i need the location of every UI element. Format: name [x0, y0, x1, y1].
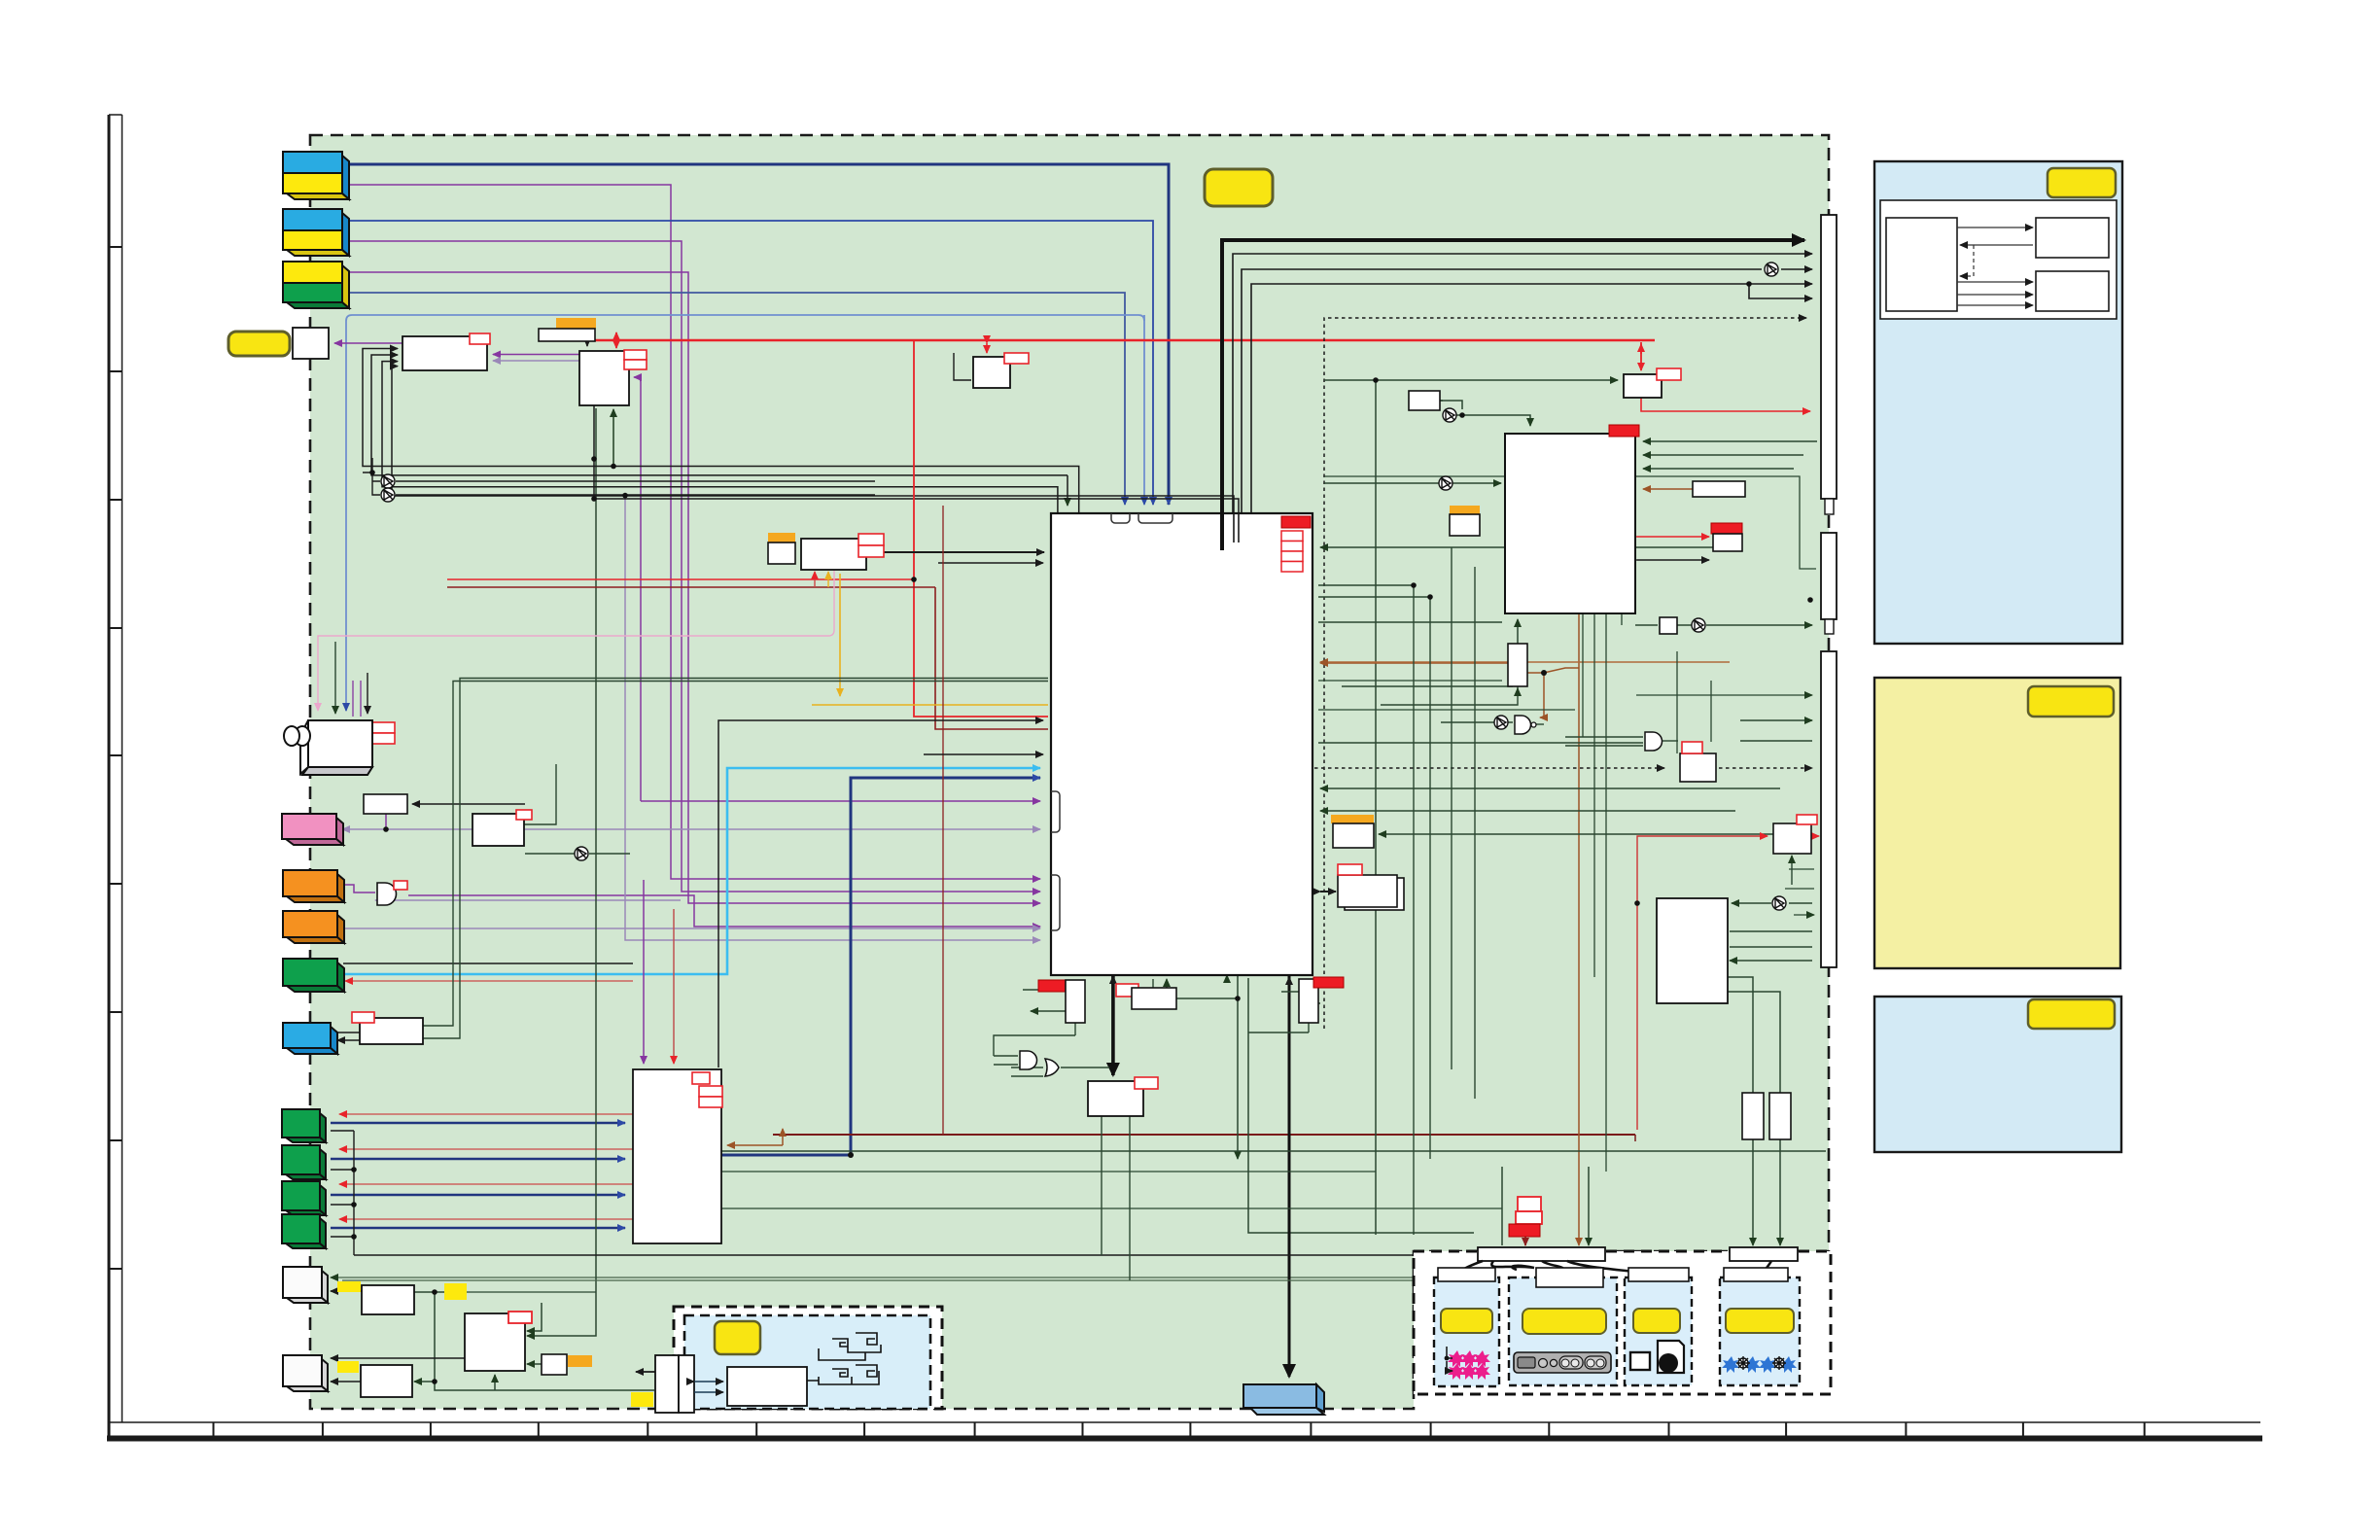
wire brown junction net: [1527, 668, 1579, 673]
connector CN6 (orange 3D plug): [283, 911, 344, 943]
tuner label (yellow rounded): [228, 332, 290, 356]
wire bus line2: [1233, 254, 1812, 513]
sound IF ref table: [858, 534, 884, 557]
memory pair at MAIN right: [1345, 878, 1404, 910]
wire into cam aux box: [412, 803, 525, 805]
right edge connector bar B: [1821, 533, 1837, 619]
mode box with ref (mid right): [1680, 753, 1716, 782]
cable curves: [1458, 1261, 1771, 1279]
wire brown into MAIN 681: [1320, 661, 1730, 663]
wire up into U2 bottom: [612, 409, 614, 467]
sync box (top right): [1624, 374, 1662, 398]
wire bus line4: [1251, 284, 1812, 513]
OR gate G5: [1045, 1059, 1059, 1076]
regulator B1: [362, 1285, 414, 1314]
wire box3 bottom drops: [1102, 1116, 1130, 1280]
red tag stack above cluster: [1518, 1197, 1541, 1211]
regulator B1 yellow tag: [337, 1281, 361, 1292]
sub box + orange tag: [542, 1354, 567, 1375]
wires speaker jacks (red return): [339, 1113, 633, 1115]
long rails bottom: [354, 1254, 1826, 1256]
wire B1 right net: [414, 1292, 654, 1390]
wire sync box feed (green): [1324, 379, 1618, 381]
AND gate G4: [1020, 1051, 1037, 1069]
wires bar C misc2: [1785, 869, 1814, 915]
wire sound IF bottom stubs: [814, 572, 816, 587]
wire reset box left arrows: [1023, 990, 1066, 1011]
panel 1 sub-block C: [2036, 271, 2109, 311]
wire yellowtag2 link: [467, 1291, 596, 1293]
wire red into CN7: [345, 980, 633, 982]
connector CN13 (white plug): [283, 1267, 328, 1303]
waveform inset outer dashed box: [674, 1307, 942, 1409]
wire IF loop 3: [382, 362, 1058, 513]
IF block U1: [402, 336, 487, 370]
wire cyan (green conn to MAIN): [337, 768, 1040, 974]
placeholder groups: [318, 164, 1826, 1390]
headphone box wires: [337, 1032, 360, 1040]
wire twin box left arrow: [636, 1371, 655, 1373]
wire osc box to VIDEO: [1440, 401, 1530, 426]
wires VIDEO right inputs: [1643, 440, 1817, 442]
P1 pink keypad icon: [1448, 1350, 1490, 1380]
mic amp out: [524, 764, 556, 824]
right edge connector bar C: [1821, 651, 1837, 967]
wires speaker jacks (black gnd): [331, 1131, 354, 1237]
G1 ref tag: [394, 881, 407, 890]
VIDEO IC ref tag (red): [1609, 425, 1639, 437]
P3 title bar: [1628, 1268, 1689, 1281]
device panel P2 (dashed): [1509, 1277, 1617, 1385]
wire XOR to VIDEO left: [1324, 482, 1501, 484]
wire AND G3 inputs: [1565, 737, 1643, 746]
wire av in audio (purple): [349, 272, 1040, 903]
wire twin-waveform link: [694, 1381, 723, 1382]
wire B1 to CN13: [331, 1290, 362, 1292]
wire reset2 stubs: [1281, 992, 1320, 1003]
MAIN IC left brackets: [1051, 791, 1060, 832]
wire v1273: [1237, 975, 1239, 1159]
MAIN-BOARD green region: [310, 135, 1829, 1409]
waveform processor box: [727, 1367, 807, 1406]
wire red rail 596: [447, 578, 914, 580]
wires xtal up: [1153, 979, 1167, 988]
wire into MAIN right 834: [1320, 810, 1735, 812]
wire dotted ctrl mid: [1314, 767, 1664, 769]
wire memory link: [1320, 891, 1336, 892]
camera ref table: [372, 722, 395, 744]
wire red supply bus: [593, 339, 1655, 342]
P2 title bar: [1536, 1268, 1603, 1287]
bar box right of VIDEO IC: [1693, 481, 1745, 497]
net verticals mid-right: [1318, 585, 1414, 1235]
wire orange-conn2 gray (to MAIN): [343, 927, 1040, 929]
wire tuner1 video (dark blue bus): [349, 164, 1169, 505]
panel 1 wires: [1957, 227, 2033, 305]
MAIN IC pin table: [1281, 531, 1303, 572]
wires bar C misc: [1740, 720, 1812, 741]
connector CN8 (light blue 3D plug): [283, 1023, 337, 1054]
aux boxes above cluster bar B: [1742, 1093, 1764, 1139]
wire AND G3 out: [1662, 740, 1678, 742]
device panel P1 (dashed): [1434, 1277, 1499, 1386]
NAND gate G2: [1515, 716, 1531, 734]
wire thick reset drop: [1111, 975, 1115, 1075]
wire AND G1 out (purple): [337, 885, 375, 892]
wire bar box to VIDEO (brown): [1643, 488, 1693, 490]
wire NAND out: [1536, 723, 1544, 725]
wire yellow branch: [839, 574, 841, 696]
cluster connector bar A: [1478, 1247, 1605, 1261]
connector CN3 (yellow/green 3D plug): [283, 262, 349, 308]
wire gray-purple pink-conn to MAIN: [524, 828, 1040, 830]
wires speaker jacks (blue thick): [331, 1122, 625, 1124]
connector CN5 (orange 3D plug): [283, 870, 344, 902]
wire blockB bottom net: [594, 405, 1239, 513]
waveform inset blue panel: [684, 1315, 930, 1409]
connector CN4 (pink 3D plug): [282, 814, 343, 845]
yellow tag T2: [444, 1283, 467, 1300]
border bottom ruler: [109, 1421, 2260, 1423]
wire comp video (light blue, to camera): [346, 315, 1144, 711]
wire AND G1 second input: [375, 899, 681, 901]
wire red branch to MAIN: [914, 340, 1048, 717]
extra horizontals right of MAIN: [1324, 476, 1816, 569]
sound IF block (mid): [801, 539, 866, 570]
camera unit: [284, 720, 372, 775]
bus tails inside MAIN: [1234, 513, 1239, 542]
VIDEO IC (second large): [1505, 434, 1635, 613]
wire maroon bus: [773, 1134, 1635, 1136]
panel 1 sub-block B: [2036, 218, 2109, 258]
sync box ref tag: [1657, 368, 1681, 380]
AND gate G1: [377, 883, 397, 905]
wire MAIN right 563: [1320, 546, 1724, 548]
orange tag above U2: [556, 318, 596, 329]
audio amp below MAIN: [1088, 1081, 1143, 1116]
waveform glyph lower: [807, 1365, 879, 1384]
wire reg up into VIDEO: [1517, 619, 1519, 644]
wire dark red branch: [447, 587, 1048, 729]
audio out block (left mid): [633, 1069, 721, 1243]
connector CN7 (green 3D plug): [283, 959, 344, 992]
wire audio block top feed: [718, 720, 1043, 1067]
wire mux bottom feed: [1342, 679, 1518, 691]
net vertical v1415: [1375, 380, 1377, 1235]
device panel P3 (dashed): [1625, 1277, 1692, 1385]
red tag + box right of VIDEO IC: [1711, 523, 1742, 534]
headphone amp ref tag: [352, 1012, 374, 1023]
regulator B3 yellow tag: [337, 1361, 359, 1373]
audio out ref tags: [692, 1072, 722, 1107]
connector CN1 (blue/yellow 3D plug): [283, 152, 349, 199]
wire U2 top feed: [586, 341, 588, 346]
P4 title bar: [1724, 1268, 1788, 1281]
yellow tag bottom: [631, 1392, 653, 1407]
P3 yellow button: [1633, 1309, 1680, 1333]
connector CN14 (white plug): [283, 1355, 328, 1391]
IF block U1 ref tag: [470, 333, 490, 344]
mic amp ref tag: [516, 810, 532, 820]
wire thick digital bus: [1222, 240, 1804, 513]
wire audio block top purple drop: [643, 880, 645, 1064]
headphone amp box: [360, 1018, 423, 1044]
right edge connector bar A: [1821, 215, 1837, 499]
wire B2 right nets: [527, 1303, 542, 1331]
wire purple bus extra: [634, 377, 641, 801]
MAIN IC (large): [1051, 513, 1312, 975]
antenna switch box: [293, 328, 329, 359]
connector CN12 (green DC jack): [282, 1214, 326, 1248]
wire gray bus extra: [625, 496, 1040, 940]
camera input stubs: [318, 549, 834, 711]
U2 ref table: [624, 350, 647, 369]
regulator B3: [361, 1365, 412, 1397]
wire IF loop 1: [363, 349, 1079, 514]
wire tuner1 audio (purple): [349, 185, 1040, 879]
sound IF sub box: [768, 542, 795, 564]
wire into MAIN left 776: [924, 753, 1043, 755]
panel 1 sub-block A: [1886, 218, 1957, 311]
panel 3 title tag (yellow): [2028, 999, 2115, 1029]
wire VIDEO-reg black link: [1637, 559, 1709, 561]
wire bus line3 + XOR: [1242, 269, 1762, 513]
panel 2 title tag (yellow): [2028, 686, 2114, 717]
mic amp block: [472, 814, 524, 846]
device panel P4 (dashed): [1720, 1277, 1800, 1385]
wire into MAIN left 579: [938, 562, 1043, 564]
wire LCD drop (thick): [1288, 975, 1291, 1377]
vertical regulator box: [1508, 644, 1527, 686]
panel 1 title tag (yellow): [2047, 168, 2116, 197]
P4 snowflake icons: [1722, 1356, 1797, 1373]
yellow tag + box below VIDEO IC: [1450, 506, 1480, 514]
wire brown mux output left: [1320, 662, 1508, 664]
connector CN10 (green DC jack): [282, 1145, 326, 1179]
wire eeprom bottom: [1791, 856, 1793, 885]
small box + XOR (mid right): [1660, 617, 1677, 634]
wire black CN7 out: [343, 962, 633, 964]
wires G4 G5 gates: [994, 1056, 1018, 1065]
XOR M2 row: [525, 853, 630, 855]
wire tuner2 audio (purple): [349, 241, 1040, 892]
wire xor2 row out to bar B: [1635, 624, 1812, 626]
purple returns into IF: [493, 354, 579, 356]
waveform glyph upper: [819, 1333, 881, 1360]
wire red eeprom net: [1637, 836, 1767, 1130]
wires power box right: [1730, 931, 1812, 961]
box above CN4: [364, 794, 407, 814]
power block B2: [465, 1313, 525, 1371]
wire dotted ctrl top: [1324, 318, 1806, 1029]
AND gate G3: [1645, 732, 1662, 751]
wire into MAIN right 811: [1320, 787, 1780, 789]
wire xtal right link: [1176, 997, 1238, 999]
wire into yellow tag box 858: [1379, 833, 1779, 835]
wire tuner2 video (blue): [349, 221, 1153, 505]
EEPROM box right: [1773, 823, 1811, 854]
wire dark blue thick (audio block out): [721, 778, 1040, 1155]
sound IF orange tag: [768, 533, 795, 542]
XOR M1 outs: [396, 481, 875, 495]
delay box ref tag: [1004, 353, 1029, 364]
wire brown drop to cluster: [1578, 613, 1580, 1245]
connector CN9 (green DC jack): [282, 1109, 326, 1142]
wire pink-conn input: [342, 828, 472, 830]
cluster connector bar B: [1730, 1247, 1798, 1261]
wire v1284 to cluster: [1248, 978, 1474, 1233]
U2 block: [579, 351, 629, 405]
P1 title bar: [1438, 1268, 1495, 1281]
waveform title tag (yellow): [715, 1321, 760, 1354]
wire av in video (blue): [349, 293, 1125, 505]
info panel 3 (light blue): [1874, 997, 2121, 1152]
delay box (top mid): [973, 357, 1010, 388]
yellow tag + box at MAIN right: [1331, 815, 1374, 823]
P3 speaker + doc icons: [1630, 1352, 1650, 1370]
wire yellowbox up: [1464, 507, 1466, 514]
wire VIDEO-reg red link: [1637, 536, 1709, 538]
rails mid bottom: [721, 1171, 1376, 1172]
info panel 2 (yellow): [1874, 678, 2120, 968]
SHEET-FRAME: [107, 115, 2262, 1440]
U2 top bar: [539, 329, 595, 341]
power box (bottom right): [1657, 898, 1728, 1003]
connector CN2 (blue/yellow 3D plug): [283, 209, 349, 256]
xtal box below MAIN: [1116, 984, 1138, 997]
XOR circles: [381, 262, 1786, 910]
P1 yellow button: [1441, 1309, 1492, 1333]
wire delay box arrow: [954, 353, 971, 380]
reset box + red tag (left below MAIN): [1038, 980, 1068, 992]
P4 yellow button: [1726, 1309, 1794, 1333]
wire sound IF out: [866, 551, 1044, 553]
P2 remote icon: [1514, 1352, 1611, 1373]
blue 3D box (LCD): [1243, 1384, 1324, 1415]
accessory cluster dashed box: [1414, 1251, 1831, 1394]
wires cluster drops: [1502, 1167, 1589, 1245]
MAIN IC ref tag (red): [1281, 516, 1311, 528]
thick bus tail inside MAIN: [1220, 513, 1224, 550]
border left ruler: [108, 115, 111, 1440]
P1 arrow glyph: [1447, 1347, 1452, 1371]
wire IF loop 4: [392, 367, 1234, 513]
MAIN IC top notches: [1111, 513, 1130, 523]
yellow tag + box below VIDEO IC 2: [1451, 519, 1452, 521]
info panel 1 (light blue): [1874, 161, 2122, 644]
twin interface boxes: [655, 1355, 679, 1413]
extra verticals right mid: [1583, 547, 1622, 1172]
B2 ref tag: [508, 1312, 532, 1323]
panel 1 inner diagram frame: [1880, 200, 2117, 319]
wire IF loop 2: [371, 355, 1067, 475]
top yellow label (main board): [1205, 169, 1273, 206]
P2 yellow button: [1522, 1309, 1606, 1334]
wire B2 to CN14: [331, 1357, 465, 1359]
connector CN11 (green DC jack): [282, 1181, 326, 1215]
XOR M1 feed: [363, 458, 380, 495]
wire XOR-NAND row: [1441, 721, 1513, 723]
wire long return y1314: [331, 1277, 1826, 1278]
small box above VIDEO IC: [1409, 391, 1440, 410]
purple into ant box: [334, 342, 402, 344]
reset box right below MAIN: [1299, 979, 1318, 1023]
wire brown vertical to maroon rail: [942, 506, 944, 1135]
